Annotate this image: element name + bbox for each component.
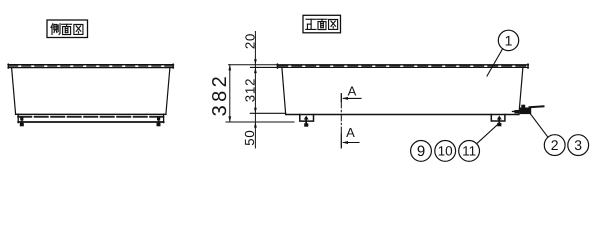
svg-text:10: 10 bbox=[438, 144, 453, 159]
front left foot bolt bbox=[304, 116, 309, 127]
drain valve fixture bbox=[512, 105, 531, 114]
front right foot bracket bbox=[491, 115, 505, 122]
balloon 1 bbox=[498, 30, 518, 50]
側 bbox=[51, 24, 60, 35]
svg-text:312: 312 bbox=[243, 78, 258, 102]
arrowhead 312 bottom (down) bbox=[254, 108, 257, 114]
side view rim bottom line bbox=[8, 67, 174, 69]
arrowhead 382 top bbox=[228, 65, 231, 71]
面 bbox=[317, 19, 327, 29]
section arrow bottom bbox=[344, 142, 360, 144]
drain valve handle bbox=[530, 105, 544, 108]
svg-text:11: 11 bbox=[462, 144, 476, 159]
svg-text:2: 2 bbox=[551, 137, 559, 153]
図 bbox=[329, 19, 338, 29]
balloon 10 bbox=[435, 141, 456, 162]
side view base frame right edge bbox=[163, 114, 165, 122]
side view title text 側面図 bbox=[51, 24, 83, 35]
arrowhead 312 top (up) bbox=[254, 68, 257, 74]
arrowhead 50 bottom (up) bbox=[254, 122, 257, 128]
leader foot to balloon 11 bbox=[477, 124, 498, 143]
図 bbox=[74, 24, 83, 34]
front bottom line bbox=[286, 114, 519, 116]
front left wall bbox=[282, 68, 286, 115]
leader to balloon 2 bbox=[531, 114, 548, 137]
side view rim left cap bbox=[7, 64, 9, 68]
svg-text:50: 50 bbox=[242, 129, 257, 145]
svg-text:A: A bbox=[348, 83, 357, 98]
front right foot bolt bbox=[497, 116, 502, 127]
front rim right cap bbox=[527, 64, 529, 68]
side view right wall bbox=[166, 68, 170, 115]
arrowhead 382 bottom bbox=[228, 116, 231, 122]
side view base frame left edge bbox=[17, 114, 19, 122]
balloon 9 bbox=[411, 141, 432, 162]
side view rim top line bbox=[8, 64, 174, 66]
front rim hidden dashed line bbox=[278, 65, 528, 67]
section arrow top bbox=[344, 97, 362, 99]
section arrowhead bottom bbox=[342, 141, 348, 144]
side view bottom line bbox=[16, 113, 166, 115]
front view title box bbox=[303, 15, 341, 33]
svg-text:382: 382 bbox=[209, 73, 231, 117]
front rim top line bbox=[277, 64, 528, 66]
面 bbox=[62, 24, 72, 34]
extension line floor bbox=[226, 121, 294, 123]
side view title box bbox=[47, 20, 88, 38]
section line A-A dash-dot middle bbox=[340, 101, 342, 134]
arrowhead 20 top (down) bbox=[254, 59, 257, 65]
section line A-A top tick bbox=[340, 94, 342, 102]
front rim left cap bbox=[276, 64, 278, 68]
svg-text:1: 1 bbox=[505, 32, 513, 48]
svg-text:20: 20 bbox=[243, 33, 258, 49]
side view left foot bolt bbox=[20, 116, 24, 126]
svg-text:3: 3 bbox=[574, 137, 582, 153]
正 bbox=[306, 19, 316, 29]
front rim bottom line bbox=[277, 67, 528, 69]
front left foot bracket bbox=[300, 115, 314, 122]
svg-text:9: 9 bbox=[417, 143, 425, 160]
extension line flange bottom bbox=[251, 66, 279, 68]
side view rim hidden dashed line bbox=[9, 65, 173, 67]
side view right foot bolt bbox=[157, 116, 161, 126]
balloon 1 leader bbox=[487, 49, 503, 76]
balloon 2 bbox=[544, 135, 565, 156]
side view base frame bottom edge bbox=[18, 121, 163, 123]
extension line tank bottom bbox=[250, 112, 285, 114]
side view base frame dashed top edge bbox=[18, 116, 163, 118]
svg-text:A: A bbox=[346, 125, 355, 140]
side view left wall bbox=[12, 68, 16, 115]
dimension line 382 bbox=[229, 65, 231, 122]
balloon 3 bbox=[568, 135, 589, 156]
dimension line 20/312/50 bbox=[254, 32, 256, 149]
front view title text 正面図 bbox=[306, 19, 338, 29]
section line A-A bottom tick bbox=[340, 134, 342, 148]
side view rim right cap bbox=[172, 64, 174, 68]
balloon 11 bbox=[459, 141, 480, 162]
front right wall bbox=[519, 68, 523, 115]
extension line rim top bbox=[229, 64, 278, 66]
section arrowhead top bbox=[342, 97, 348, 100]
